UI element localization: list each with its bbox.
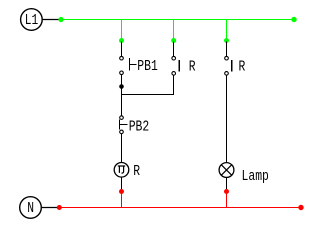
- wire L1 stub branch 1 (green): [121, 20, 123, 41]
- junction dot branch 1 top: [119, 38, 124, 43]
- svg-text:PB2: PB2: [129, 118, 150, 136]
- wire seal-in horizontal link: [122, 94, 175, 96]
- junction dot branch 1 bottom: [119, 189, 124, 194]
- label R (seal-in contact): [189, 58, 196, 76]
- wire N stub branch 3 (red): [226, 192, 228, 208]
- pushbutton PB1 (N.O.): [120, 56, 137, 74]
- wire branch 3 upper: [226, 42, 228, 57]
- wire branch 1 to N rail: [121, 177, 123, 190]
- svg-text:R: R: [189, 58, 196, 76]
- contact R seal-in (N.O.): [172, 56, 179, 75]
- junction dot branch 2 top: [171, 38, 176, 43]
- wire branch 1 upper: [121, 42, 123, 57]
- label PB1: [137, 57, 158, 75]
- label PB2: [129, 118, 150, 136]
- wire N stub branch 1 (red): [121, 192, 123, 208]
- lamp: [219, 163, 234, 178]
- wire branch 3 middle: [226, 75, 228, 162]
- junction dot branch 3 top: [224, 38, 229, 43]
- svg-text:Lamp: Lamp: [242, 167, 269, 185]
- junction dot L1 rail left: [58, 17, 63, 22]
- node L1 terminal circle: [21, 9, 43, 31]
- pushbutton PB2 (N.C.): [120, 116, 128, 134]
- svg-text:R: R: [239, 58, 246, 76]
- junction dot seal-in node: [119, 84, 124, 89]
- wire L1 rail (green): [61, 19, 294, 21]
- wire branch 1 middle: [121, 75, 123, 116]
- svg-text:N: N: [27, 199, 34, 217]
- label R (coil): [133, 162, 140, 180]
- relay coil R: [114, 163, 129, 178]
- svg-text:R: R: [133, 162, 140, 180]
- wire branch 3 to N rail: [226, 177, 228, 190]
- node N terminal circle: [20, 197, 42, 219]
- junction dot branch 3 bottom: [224, 189, 229, 194]
- wire L1 lead: [42, 19, 60, 21]
- svg-text:L1: L1: [25, 11, 38, 29]
- wire N lead: [41, 207, 58, 209]
- junction dot N rail right: [298, 205, 303, 210]
- label Lamp: [242, 167, 269, 185]
- junction dot L1 rail right: [291, 17, 296, 22]
- wire L1 stub branch 3 (green): [226, 20, 228, 41]
- contact R lamp branch (N.O.): [225, 56, 232, 75]
- svg-text:PB1: PB1: [137, 57, 158, 75]
- wire N rail (red): [59, 207, 301, 209]
- wire branch 1 lower: [121, 134, 123, 163]
- junction dot N rail left: [57, 205, 62, 210]
- wire L1 stub branch 2 (green): [173, 20, 175, 41]
- wire branch 2 lower: [173, 75, 175, 94]
- wire branch 2 upper: [173, 42, 175, 57]
- label R (lamp contact): [239, 58, 246, 76]
